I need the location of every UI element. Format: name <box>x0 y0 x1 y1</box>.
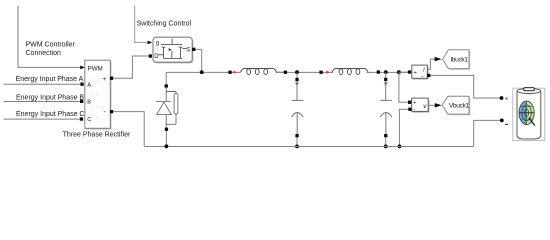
port marker C1 top <box>295 78 298 81</box>
port marker S output <box>192 48 195 51</box>
svg-text:B: B <box>87 100 91 106</box>
wire rail into current sensor <box>399 71 408 73</box>
junction diode bottom rail <box>165 144 169 148</box>
wire current sensor i output to Ibuck1 <box>427 59 435 69</box>
block U1 Three Phase Rectifier <box>85 60 112 129</box>
wire Energy Input Phase B <box>4 100 81 102</box>
wire diode bottom to bottom rail <box>165 131 167 146</box>
inductor L1 <box>240 69 277 75</box>
label - at battery <box>505 123 508 125</box>
battery terminal <box>524 88 535 91</box>
wire vsensor v output to Vbuck1 <box>428 104 435 106</box>
port marker diode top <box>165 84 168 87</box>
wire C2 top branch <box>385 72 387 78</box>
wire switching control (vertical from top into g port) <box>135 6 148 43</box>
svg-text:Energy Input Phase B: Energy Input Phase B <box>16 94 84 101</box>
battery globe icon <box>519 101 535 126</box>
svg-text:-: - <box>413 107 415 113</box>
svg-text:PWM Controller: PWM Controller <box>26 41 76 48</box>
svg-text:g: g <box>156 41 159 47</box>
arrowhead into g port <box>148 41 153 45</box>
battery B1 <box>513 88 545 141</box>
wire C1 bottom to rail <box>296 137 298 146</box>
red through-variable arrow on L2 <box>326 71 330 74</box>
svg-text:Ibuck1: Ibuck1 <box>450 57 468 64</box>
capacitor C1 <box>292 81 304 134</box>
node battery - <box>500 119 504 123</box>
port marker rectifier - output <box>110 110 113 113</box>
port marker current sensor + <box>408 70 411 73</box>
wire Energy Input Phase A <box>4 83 81 85</box>
junction vsensor - bottom rail <box>398 145 402 149</box>
junction capacitor C2 top <box>384 70 388 74</box>
port marker C2 top <box>384 78 387 81</box>
port marker voltage sensor - <box>408 108 411 111</box>
diode D1 with snubber resistor <box>156 88 178 128</box>
junction C2 bottom rail <box>384 145 388 149</box>
block voltage sensor U3 <box>412 98 430 113</box>
arrowhead into PWM port <box>80 66 85 70</box>
block Q1 MOSFET (Switching Control) <box>153 37 193 63</box>
junction C1 bottom rail <box>295 145 299 149</box>
capacitor C2 <box>380 81 392 134</box>
svg-text:S: S <box>186 48 190 54</box>
svg-text:-: - <box>422 74 424 80</box>
port marker C1 bottom <box>295 134 298 137</box>
wire vsensor + branch <box>399 72 408 102</box>
wire S output down to top rail <box>195 49 201 71</box>
MOSFET icon inside Q1 <box>158 39 187 59</box>
port marker inductor L2 right <box>377 70 380 73</box>
svg-text:Connection: Connection <box>26 50 62 57</box>
junction S-rail <box>200 70 204 74</box>
battery top rim <box>517 89 541 94</box>
svg-text:PWM: PWM <box>88 65 103 72</box>
junction voltage sensor + branch <box>397 70 401 74</box>
svg-text:Energy Input Phase C: Energy Input Phase C <box>16 111 85 118</box>
red through-variable arrow on C1 <box>295 82 299 86</box>
wire rectifier + output to MOSFET D <box>113 56 149 78</box>
faint ghost icon inside rectifier <box>92 79 102 119</box>
wire Energy Input Phase C <box>4 118 80 120</box>
svg-text:+: + <box>103 76 107 83</box>
wire PWM controller connection (vertical from top into PWM port) <box>18 6 80 68</box>
battery block border <box>513 88 545 140</box>
port marker B input <box>80 100 83 103</box>
port marker inductor L2 left <box>319 71 322 74</box>
port marker D input <box>149 54 152 57</box>
wire current sensor - output to battery + <box>430 75 499 98</box>
port marker A input <box>80 83 83 86</box>
port marker inductor L1 left <box>228 71 231 74</box>
port marker C2 bottom <box>384 134 387 137</box>
wire bottom rail up to battery - <box>474 120 500 146</box>
junction capacitor C1 top <box>295 70 299 74</box>
svg-text:+: + <box>505 97 508 103</box>
goto tag Vbuck1 <box>442 96 470 115</box>
svg-text:Vbuck1: Vbuck1 <box>449 103 470 110</box>
wire L1 exit stub <box>277 71 284 73</box>
wire vsensor - branch to bottom rail <box>399 109 408 146</box>
red through-variable arrow on C2 <box>384 82 388 86</box>
red through-variable arrow on L1 <box>233 71 237 74</box>
node battery + <box>500 96 504 100</box>
battery can body <box>517 91 541 139</box>
wire top rail <box>166 71 408 73</box>
port marker diode bottom <box>165 128 168 131</box>
block current sensor U2 <box>412 65 429 80</box>
svg-text:C: C <box>87 117 91 123</box>
svg-text:A: A <box>87 82 91 88</box>
port marker current sensor - output <box>427 74 430 77</box>
wire bottom rail <box>144 145 473 147</box>
wire C2 bottom to rail <box>385 137 387 146</box>
wire C1 top branch <box>296 72 298 78</box>
port marker voltage sensor + <box>408 101 411 104</box>
inductor L2 <box>332 69 369 75</box>
svg-text:Energy Input Phase A: Energy Input Phase A <box>16 76 84 83</box>
svg-text:Switching Control: Switching Control <box>137 20 192 27</box>
goto tag Ibuck1 <box>443 50 471 70</box>
wire rectifier - output to bottom rail <box>113 112 144 147</box>
port marker C input <box>80 117 83 120</box>
arrowhead into Vbuck1 <box>435 103 442 107</box>
svg-text:Three Phase Rectifier: Three Phase Rectifier <box>63 132 131 139</box>
port marker rectifier + output <box>110 77 113 80</box>
arrowhead into Ibuck1 <box>435 57 442 61</box>
port marker inductor L1 right <box>284 71 287 74</box>
wire rail corner down to diode <box>165 72 167 84</box>
